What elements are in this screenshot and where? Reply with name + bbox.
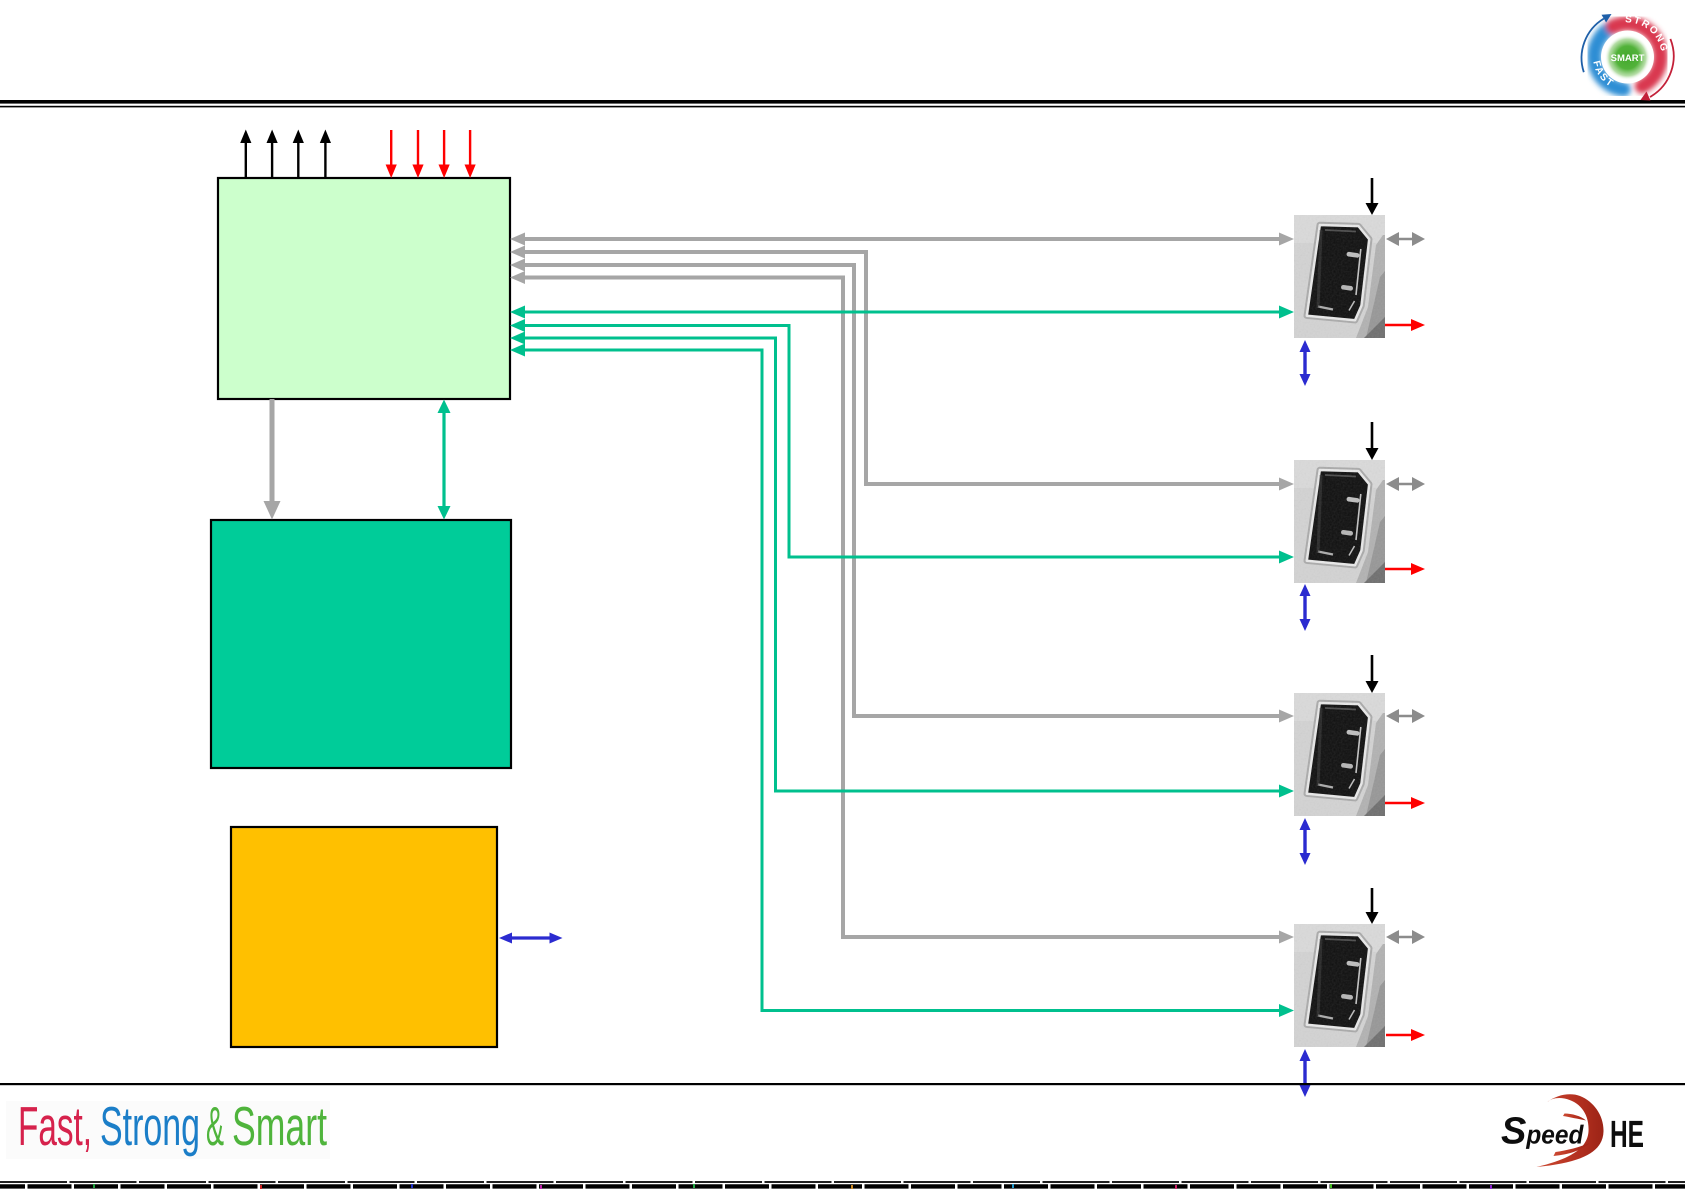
J3 gray bidirectional arrow [1386,709,1425,723]
green link wire 2 [510,319,1294,564]
tagline background [6,1101,330,1159]
J4 black input arrow [1366,888,1379,924]
red down arrow 2 [412,130,423,178]
J1 gray bidirectional arrow [1386,232,1425,246]
green link wire 4 [510,344,1294,1018]
J2 gray bidirectional arrow [1386,477,1425,491]
SpeedHE logo swoosh [1537,1094,1604,1167]
J4 gray bidirectional arrow [1386,930,1425,944]
J2 red output arrow [1385,563,1425,575]
svg-text:Smart: Smart [232,1095,327,1157]
connector J3 photo [1294,693,1385,816]
footer rule [0,1083,1685,1085]
connector J4 photo [1294,924,1385,1047]
gray bus wire 4 [510,271,1294,944]
gray bus wire 3 [510,259,1294,723]
peripheral block (orange) [231,827,497,1047]
green bidirectional arrow CPU-memory [438,400,451,520]
memory block (teal) [211,520,511,768]
bottom edge dashed strip thick [0,1184,1685,1188]
blue bidirectional arrow (peripheral) [499,933,563,944]
header rule thin [0,106,1685,108]
J4 red output arrow [1386,1029,1425,1041]
J3 black input arrow [1366,655,1379,693]
connector J1 photo [1294,215,1385,338]
J4 blue bidirectional arrow [1300,1049,1311,1097]
J1 red output arrow [1385,319,1425,331]
red down arrow 1 [386,130,397,178]
header rule thick [0,100,1685,104]
black up arrow 3 [293,130,304,179]
svg-text:SMART: SMART [1611,53,1645,64]
bottom edge dashed strip thin [0,1181,1685,1183]
black up arrow 1 [240,130,251,179]
black up arrow 2 [267,130,278,179]
connector J2 photo [1294,460,1385,583]
gray bus arrow CPU to memory [264,399,281,520]
J1 black input arrow [1366,178,1379,215]
svg-text:HE: HE [1610,1114,1644,1156]
J3 red output arrow [1385,797,1425,809]
CPU block (light green) [218,178,510,399]
gray bus wire 2 [510,246,1294,491]
J2 blue bidirectional arrow [1300,584,1311,631]
red down arrow 3 [439,130,450,178]
red down arrow 4 [465,130,476,178]
company circle logo [1582,14,1674,101]
J2 black input arrow [1366,422,1379,460]
bottom edge colored specks [93,1184,1492,1189]
green link wire 3 [510,332,1294,798]
svg-text:Strong: Strong [100,1095,200,1157]
svg-text:Fast,: Fast, [18,1095,92,1157]
green link wire 1 [510,306,1294,319]
svg-text:&: & [206,1095,224,1157]
J3 blue bidirectional arrow [1300,818,1311,865]
black up arrow 4 [320,130,331,179]
J1 blue bidirectional arrow [1300,340,1311,386]
gray bus wire 1 [510,233,1294,246]
